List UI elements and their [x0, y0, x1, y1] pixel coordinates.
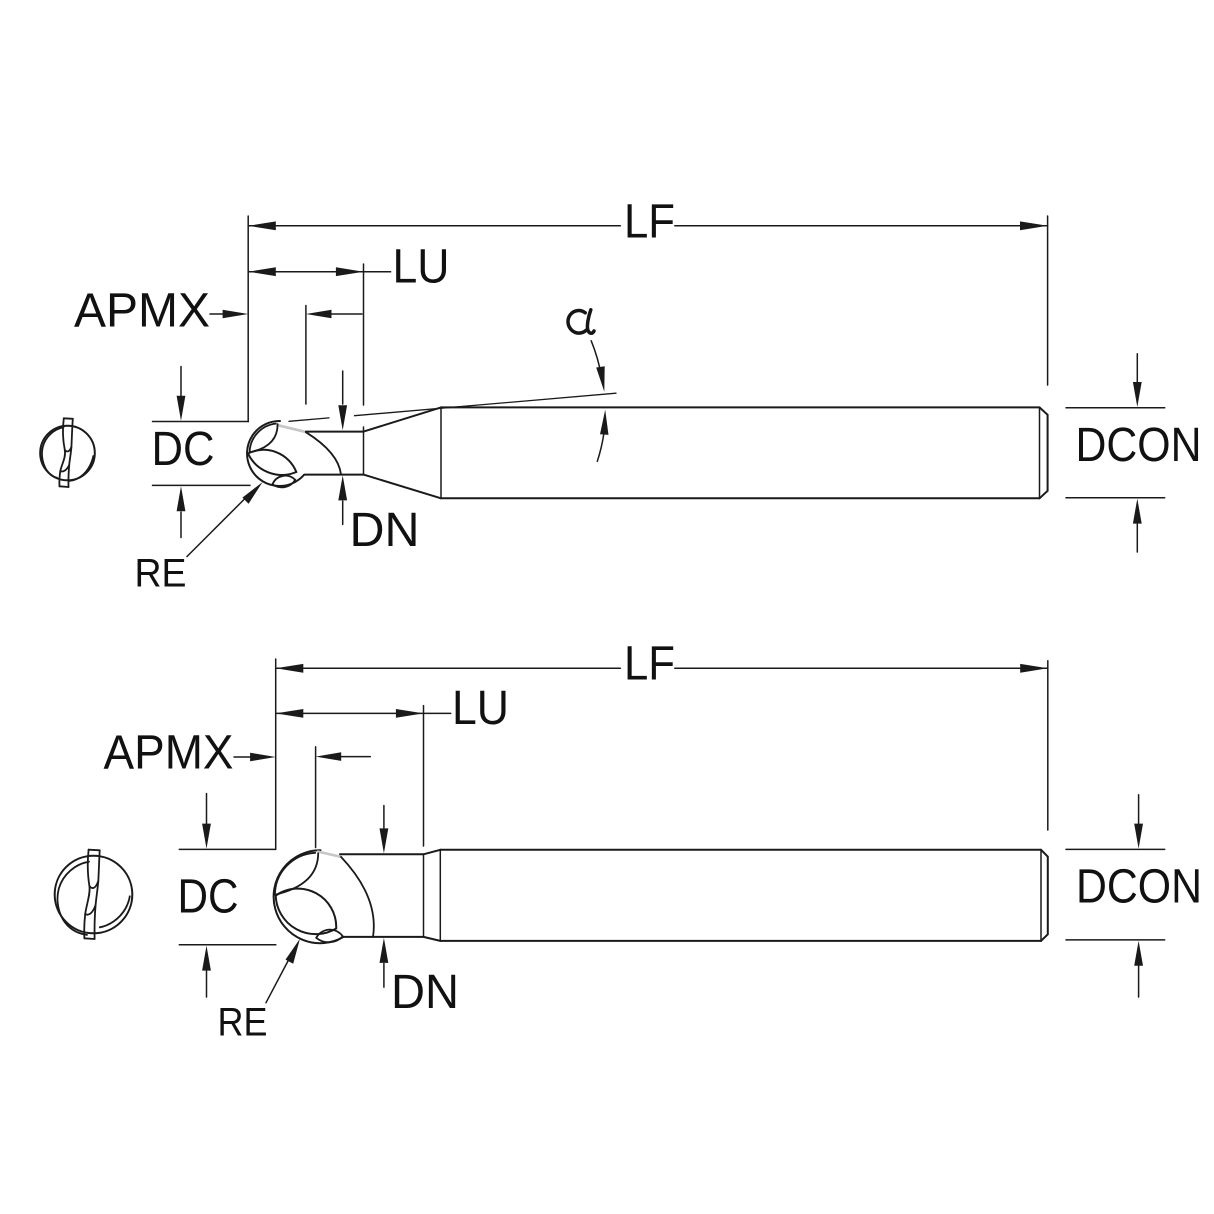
taper silhouette thin line (top tool) [289, 393, 616, 421]
svg-text:DC: DC [178, 870, 239, 923]
DN upper arrow (bottom) [380, 806, 389, 854]
shank bottom line (top tool) [441, 497, 1040, 499]
DC extension line upper (bottom) [179, 848, 275, 850]
DC arrow lower (top) [177, 486, 186, 537]
flute runout arc on neck (top tool) [306, 432, 341, 474]
front view flute web band (bottom tool) [84, 850, 99, 939]
svg-text:LU: LU [393, 240, 450, 293]
ball nose outline (bottom tool) [274, 850, 344, 943]
svg-text:DCON: DCON [1076, 860, 1202, 913]
extension line at tool tip (top) [247, 216, 249, 422]
ball lower flute blob (bottom tool) [316, 930, 343, 943]
ball inner edge arc (bottom tool) [275, 853, 315, 895]
cone bottom line (top tool) [364, 475, 442, 499]
alpha label (top) [568, 310, 594, 334]
DCON extension line upper (top) [1066, 407, 1165, 409]
LF dimension line (bottom) [276, 664, 1048, 673]
DCON arrow upper (top) [1133, 354, 1142, 407]
alpha angle arc lower arrow [597, 410, 608, 462]
DN upper arrow (top) [338, 371, 347, 430]
DC extension line lower (bottom) [179, 944, 275, 946]
DCON extension line lower (top) [1066, 497, 1165, 499]
extension line LU end (top) [363, 264, 365, 432]
extension line LU end (bottom) [423, 706, 425, 846]
front view circle (bottom tool) [55, 856, 133, 934]
RE leader arrow (top) [187, 482, 263, 556]
neck bottom line (bottom tool) [344, 936, 424, 938]
svg-text:DN: DN [350, 504, 420, 557]
ball lower flute blob (top tool) [273, 476, 296, 488]
svg-text:DC: DC [152, 423, 215, 476]
RE leader arrow (bottom) [266, 939, 300, 1003]
DCON extension line lower (bottom) [1066, 939, 1165, 941]
front view flute face arc right (top tool) [70, 456, 94, 481]
DC extension line lower (top) [153, 484, 251, 486]
front view flute face arc left (top tool) [42, 427, 64, 478]
shank end chamfer (top tool) [1040, 407, 1048, 498]
DCON arrow lower (top) [1133, 499, 1142, 552]
svg-text:APMX: APMX [74, 285, 210, 338]
neck-cone junction line (top tool) [363, 432, 365, 475]
step top line (bottom tool) [424, 850, 441, 855]
step-shank junction line (bottom tool) [439, 850, 441, 941]
DCON arrow upper (bottom) [1134, 795, 1143, 849]
extension line APMX end (top) [305, 306, 307, 405]
svg-text:LF: LF [624, 195, 675, 248]
svg-text:APMX: APMX [104, 726, 234, 779]
neck bottom line (top tool) [304, 474, 363, 476]
ball cutting edge chamfer gray line (top tool) [278, 425, 307, 432]
front view flute face arc right (bottom tool) [100, 896, 130, 927]
DCON arrow lower (bottom) [1134, 941, 1143, 997]
ball inner edge arc (top tool) [250, 424, 276, 453]
DN lower arrow (top) [338, 475, 347, 524]
ball gash curve (bottom tool) [275, 853, 318, 894]
LU dimension line (top) [248, 267, 390, 276]
DC arrow lower (bottom) [202, 946, 211, 997]
APMX far-side arrow (bottom) [316, 752, 371, 761]
shank top line (top tool) [441, 406, 1040, 408]
front view flute web band (top tool) [59, 418, 72, 487]
extension line at tool tip (bottom) [275, 659, 277, 849]
neck end junction line (bottom tool) [423, 854, 425, 937]
extension line shank end (bottom) [1047, 661, 1049, 830]
ball gash curve (top tool) [250, 424, 278, 452]
APMX far-side arrow (top) [306, 310, 362, 319]
front view flute face arc left (bottom tool) [57, 862, 89, 935]
svg-text:LU: LU [452, 682, 509, 735]
ball nose outline (top tool) [247, 421, 304, 486]
step bottom line (bottom tool) [424, 937, 441, 941]
cone-shank junction line (top tool) [440, 407, 442, 498]
cone top line (top tool) [364, 407, 442, 431]
extension line shank end (top) [1047, 216, 1049, 385]
DN lower arrow (bottom) [380, 938, 389, 987]
front view circle (top tool) [40, 426, 95, 481]
shank end chamfer (bottom tool) [1041, 850, 1048, 941]
shank top line (bottom tool) [440, 849, 1041, 851]
ball cutting edge chamfer gray line (bottom tool) [318, 852, 341, 857]
DC arrow upper (bottom) [202, 794, 211, 849]
APMX leader arrow (bottom) [234, 753, 276, 762]
neck top line (bottom tool) [340, 853, 424, 855]
svg-text:DCON: DCON [1076, 419, 1202, 472]
neck top line (top tool) [306, 431, 364, 433]
flute runout arc on neck (bottom tool) [341, 857, 374, 937]
shank bottom line (bottom tool) [440, 940, 1041, 942]
alpha angle arc upper arrow [591, 341, 605, 392]
ball flute face lens (bottom tool) [276, 889, 337, 935]
svg-text:RE: RE [135, 552, 187, 596]
extension line APMX end (bottom) [315, 747, 317, 848]
svg-text:RE: RE [218, 1000, 268, 1044]
svg-text:DN: DN [391, 966, 459, 1019]
LU dimension line (bottom) [276, 709, 451, 718]
DC extension line upper (top) [153, 421, 249, 423]
DC arrow upper (top) [177, 367, 186, 421]
APMX leader arrow (top) [210, 310, 248, 319]
LF dimension line (top) [248, 221, 1047, 230]
svg-text:LF: LF [624, 638, 675, 691]
ball flute face lens (top tool) [248, 450, 296, 475]
DCON extension line upper (bottom) [1066, 848, 1165, 850]
